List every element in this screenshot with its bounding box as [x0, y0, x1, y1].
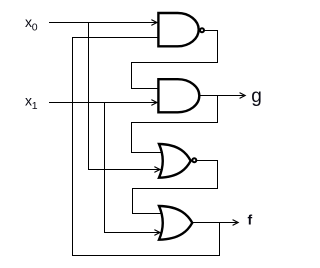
- svg-text:g: g: [251, 86, 262, 107]
- svg-text:f: f: [248, 211, 253, 227]
- svg-text:0: 0: [32, 21, 38, 33]
- svg-text:1: 1: [32, 100, 38, 112]
